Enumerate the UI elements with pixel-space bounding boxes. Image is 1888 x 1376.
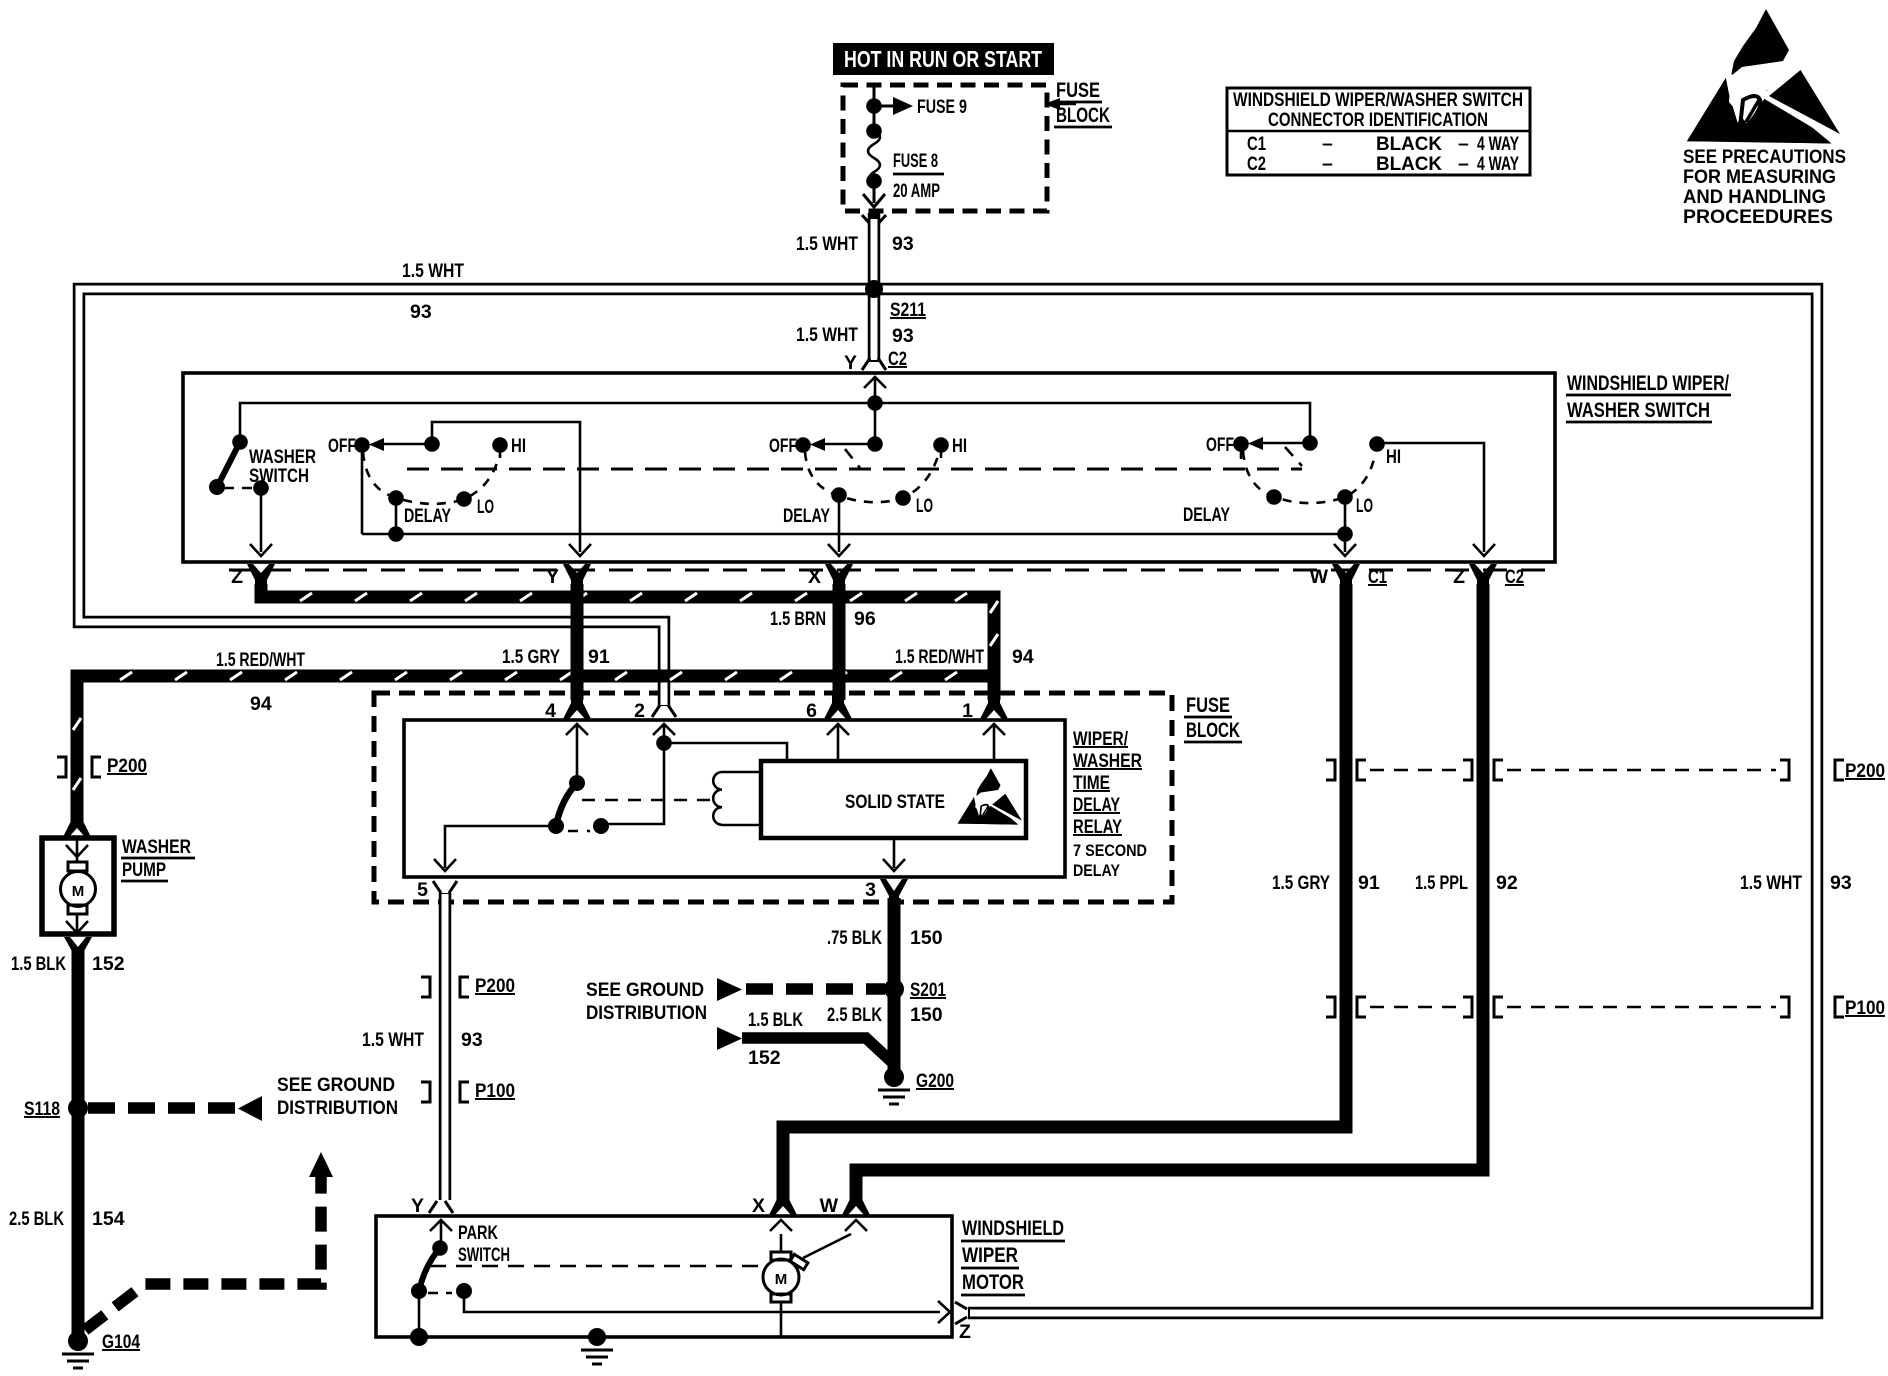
svg-text:W: W	[820, 1195, 839, 1217]
svg-text:154: 154	[92, 1208, 125, 1230]
arrow pin Y C2 into switch box	[864, 377, 886, 403]
svg-text:1.5 WHT: 1.5 WHT	[1740, 872, 1802, 894]
section B arm to OFF	[821, 443, 875, 446]
svg-text:LO: LO	[1356, 495, 1373, 517]
park switch coupling dashes	[430, 1265, 762, 1268]
section C HI contact to Z C2 output	[1369, 436, 1385, 452]
svg-text:WINDSHIELD: WINDSHIELD	[962, 1217, 1064, 1240]
section A HI contact	[492, 437, 508, 453]
svg-text:1.5 BLK: 1.5 BLK	[11, 953, 66, 975]
svg-text:DELAY: DELAY	[1073, 794, 1120, 816]
switch section A rotor and Y output	[432, 422, 591, 556]
wire 1.5 PPL 92 switch Z C2 to wiper motor W	[856, 584, 1483, 1200]
park switch	[411, 1222, 940, 1337]
svg-text:93: 93	[892, 325, 914, 347]
arrow relay pin 2	[653, 724, 675, 742]
relay switch arm	[556, 783, 577, 826]
white core pin 5 wire over fuse block dash	[442, 896, 449, 909]
svg-text:SWITCH: SWITCH	[458, 1244, 510, 1266]
section A OFF to common line	[361, 445, 364, 534]
terminal V relay pin 5 hollow	[433, 881, 457, 893]
svg-text:1: 1	[962, 700, 973, 722]
node below fuse element	[866, 173, 882, 189]
in-line connector P200 on washer pump wire	[57, 757, 101, 777]
junction node park switch ground	[410, 1328, 428, 1346]
junction node feed to middle section	[867, 395, 883, 411]
washer switch	[209, 434, 316, 556]
splice S201	[884, 979, 904, 999]
svg-text:HI: HI	[952, 435, 967, 457]
svg-text:W: W	[1310, 566, 1329, 588]
svg-text:OFF: OFF	[769, 435, 797, 457]
arrow relay pin 6	[827, 724, 849, 761]
wire dashed stub to ground distribution	[88, 1102, 236, 1114]
svg-text:93: 93	[410, 301, 432, 323]
svg-text:4: 4	[545, 700, 556, 722]
splice S211	[865, 280, 883, 298]
section B rotary arc	[805, 452, 938, 502]
terminal V pin Z switch	[247, 564, 275, 588]
svg-text:RELAY: RELAY	[1073, 816, 1122, 838]
section C OFF contact	[1233, 436, 1249, 452]
wire 1.5 RED-WHT 94 bus to washer pump hatched	[73, 672, 994, 822]
splice S118	[68, 1098, 88, 1118]
section B LO contact	[895, 490, 911, 506]
wire dashed elbow to wiper motor ground	[85, 1175, 321, 1330]
svg-text:152: 152	[92, 953, 125, 975]
svg-text:M: M	[72, 883, 85, 900]
wire 1.5 WHT 93 fuse to splice S211	[868, 213, 881, 291]
svg-text:1.5 BLK: 1.5 BLK	[748, 1009, 803, 1031]
wire stub bus to relay pin 1	[988, 670, 1001, 700]
svg-text:2: 2	[634, 700, 645, 722]
junction node on fuse feed	[866, 98, 882, 114]
wire .75 BLK 150 relay pin 3 to G200	[888, 898, 901, 1078]
svg-text:OFF: OFF	[328, 435, 356, 457]
svg-text:Z: Z	[231, 566, 243, 588]
svg-text:P200: P200	[1845, 760, 1885, 782]
svg-text:SOLID STATE: SOLID STATE	[845, 791, 945, 813]
wire into fuse	[873, 85, 876, 106]
svg-text:Y: Y	[546, 566, 559, 588]
wire 2.5 BLK 154 S118 to G104	[72, 1108, 85, 1335]
svg-text:1.5 RED/WHT: 1.5 RED/WHT	[895, 646, 984, 668]
wire 1.5 RED-WHT 94 switch Z to fuse block pin 1 hatched bus	[261, 584, 998, 676]
svg-text:M: M	[775, 1271, 788, 1288]
svg-text:1.5 WHT: 1.5 WHT	[796, 324, 858, 346]
see ground distribution arrow S201	[717, 978, 742, 1001]
fuse block dashed box	[843, 85, 1047, 211]
arrow to FUSE 9	[874, 105, 896, 108]
svg-text:WASHER: WASHER	[122, 836, 191, 858]
svg-text:1.5 WHT: 1.5 WHT	[362, 1029, 424, 1051]
svg-text:X: X	[752, 1195, 765, 1217]
see ground distribution arrow 152	[717, 1027, 742, 1050]
svg-text:WINDSHIELD WIPER/: WINDSHIELD WIPER/	[1567, 372, 1729, 395]
svg-text:91: 91	[1358, 872, 1380, 894]
svg-text:BLACK: BLACK	[1376, 153, 1442, 175]
svg-text:94: 94	[250, 693, 272, 715]
connector id table	[1227, 88, 1530, 175]
section A rotary arc	[363, 452, 499, 504]
section B DELAY contact to X output	[831, 487, 847, 503]
ground G104	[68, 1331, 88, 1351]
svg-text:C2: C2	[1247, 153, 1266, 175]
wire 1.5 WHT 93 relay pin 5 to motor pin Y	[439, 893, 452, 1200]
svg-text:FUSE 9: FUSE 9	[917, 96, 967, 118]
wire 1.5 BRN 96 switch X to relay pin 6	[833, 584, 846, 700]
arrow relay pin 4	[566, 724, 588, 783]
svg-text:93: 93	[461, 1029, 483, 1051]
solid state box	[761, 761, 1026, 838]
terminal V pin C2	[862, 358, 886, 370]
svg-text:DELAY: DELAY	[1183, 504, 1230, 526]
svg-text:X: X	[808, 566, 821, 588]
svg-text:C2: C2	[888, 348, 907, 370]
svg-text:DISTRIBUTION: DISTRIBUTION	[277, 1097, 398, 1119]
terminal V relay pin 4	[563, 694, 591, 719]
svg-text:SEE GROUND: SEE GROUND	[277, 1074, 395, 1096]
switch feed line from washer switch to third section	[240, 403, 1310, 443]
svg-text:2.5 BLK: 2.5 BLK	[9, 1208, 64, 1230]
svg-text:1.5 PPL: 1.5 PPL	[1415, 872, 1468, 894]
wiper motor M	[763, 1220, 867, 1337]
svg-text:150: 150	[910, 1004, 943, 1026]
svg-text:SEE PRECAUTIONS: SEE PRECAUTIONS	[1683, 146, 1846, 168]
wire 2.5 BLK 150 dashed to S201	[746, 983, 885, 995]
terminal V relay pin 2 hollow	[652, 705, 676, 717]
common line sections A to C	[362, 533, 1345, 536]
svg-text:92: 92	[1496, 872, 1518, 894]
svg-text:2.5 BLK: 2.5 BLK	[827, 1004, 882, 1026]
in-line connector P100 on pin 5 wire	[421, 1082, 469, 1102]
terminal V pin W switch	[1332, 564, 1360, 588]
terminal V pin X switch	[825, 564, 853, 588]
svg-text:C1: C1	[1368, 566, 1387, 588]
svg-text:S118: S118	[24, 1098, 60, 1120]
svg-text:Y: Y	[411, 1195, 424, 1217]
in-line connector P200 row right	[1326, 760, 1885, 782]
svg-text:BLOCK: BLOCK	[1056, 104, 1110, 127]
in-line connector P200 on pin 5 wire	[421, 977, 469, 997]
svg-text:150: 150	[910, 927, 943, 949]
svg-text:1.5 RED/WHT: 1.5 RED/WHT	[216, 649, 305, 671]
motor ground node	[588, 1328, 606, 1346]
relay pin 2 internal to solid state and contact	[656, 735, 672, 751]
svg-text:DISTRIBUTION: DISTRIBUTION	[586, 1002, 707, 1024]
svg-text:20 AMP: 20 AMP	[893, 180, 940, 202]
svg-text:AND HANDLING: AND HANDLING	[1683, 186, 1826, 208]
node above fuse element	[873, 106, 876, 131]
FUSE BLOCK label with arrow	[1044, 79, 1112, 127]
section A LO contact	[456, 491, 472, 507]
svg-text:DELAY: DELAY	[1073, 861, 1121, 880]
svg-text:93: 93	[892, 233, 914, 255]
section A DELAY contact	[388, 490, 404, 506]
terminal V motor pin Y hollow	[429, 1201, 453, 1213]
svg-text:PUMP: PUMP	[122, 859, 166, 881]
section A OFF contact	[354, 437, 370, 453]
terminal V relay pin 6	[824, 694, 852, 719]
arrow relay pin 5	[434, 848, 456, 871]
fuse element FUSE 8 20 AMP	[868, 131, 880, 181]
section B HI contact	[933, 437, 949, 453]
solid state esd symbol	[958, 768, 1023, 824]
svg-text:LO: LO	[477, 496, 494, 518]
svg-text:1.5 BRN: 1.5 BRN	[770, 608, 826, 630]
terminal V washer pump bottom	[64, 937, 92, 953]
relay switch contact from pin 4	[569, 775, 585, 791]
arrow down to fuse block edge	[873, 181, 876, 203]
section C coupling dash	[1285, 447, 1302, 466]
svg-text:P100: P100	[1845, 997, 1885, 1019]
svg-text:Z: Z	[1453, 566, 1465, 588]
svg-text:G200: G200	[916, 1070, 954, 1092]
svg-text:HOT IN RUN OR START: HOT IN RUN OR START	[844, 46, 1042, 72]
washer pump motor	[61, 838, 96, 934]
wiper washer time delay relay box	[404, 720, 1065, 877]
svg-text:TIME: TIME	[1073, 772, 1110, 794]
relay pin 3 output	[883, 838, 905, 871]
svg-text:–: –	[1322, 153, 1333, 175]
svg-text:7 SECOND: 7 SECOND	[1073, 841, 1147, 860]
svg-text:HI: HI	[1386, 446, 1401, 468]
mechanical coupling dashed line	[407, 468, 1302, 471]
svg-text:–: –	[1458, 153, 1469, 175]
relay arm to pin 5	[445, 826, 556, 848]
svg-text:91: 91	[588, 646, 610, 668]
svg-text:FUSE 8: FUSE 8	[893, 150, 938, 172]
ESD precaution text	[1683, 146, 1846, 228]
terminal V below fuse block	[862, 215, 886, 226]
section B OFF contact	[795, 437, 811, 453]
arrow motor pin Y	[430, 1220, 452, 1248]
svg-text:93: 93	[1830, 872, 1852, 894]
section C rotary arc	[1243, 451, 1375, 503]
svg-text:1.5 GRY: 1.5 GRY	[502, 646, 560, 668]
in-line connector P100 row right	[1326, 997, 1885, 1019]
svg-text:1.5 WHT: 1.5 WHT	[796, 233, 858, 255]
windshield wiper motor box	[376, 1216, 952, 1337]
svg-text:96: 96	[854, 608, 876, 630]
svg-text:BLACK: BLACK	[1376, 133, 1442, 155]
svg-text:WASHER SWITCH: WASHER SWITCH	[1567, 399, 1710, 422]
svg-text:C1: C1	[1247, 133, 1266, 155]
svg-text:3: 3	[865, 879, 876, 901]
svg-text:P100: P100	[475, 1080, 515, 1102]
svg-text:MOTOR: MOTOR	[962, 1271, 1024, 1294]
svg-text:94: 94	[1012, 646, 1034, 668]
svg-text:CONNECTOR IDENTIFICATION: CONNECTOR IDENTIFICATION	[1268, 109, 1488, 131]
svg-text:P200: P200	[107, 755, 147, 777]
svg-text:PROCEEDURES: PROCEEDURES	[1683, 206, 1833, 228]
svg-text:6: 6	[806, 700, 817, 722]
svg-text:4 WAY: 4 WAY	[1477, 133, 1519, 155]
section B coupling dash	[845, 449, 860, 468]
section C DELAY contact	[1266, 489, 1282, 505]
svg-text:FUSE: FUSE	[1056, 79, 1100, 102]
svg-text:Z: Z	[959, 1321, 971, 1343]
terminal V motor pin Z hollow	[955, 1302, 967, 1324]
wire 1.5 BLK 152 pump to S118	[72, 948, 85, 1108]
wire 1.5 WHT 93 left loop S211 to relay pin 2	[79, 289, 874, 706]
svg-text:5: 5	[417, 879, 428, 901]
svg-text:FUSE: FUSE	[1186, 694, 1230, 717]
svg-text:C2: C2	[1505, 566, 1524, 588]
svg-text:WIPER: WIPER	[962, 1244, 1018, 1267]
svg-text:–: –	[1458, 133, 1469, 155]
windshield wiper washer switch box	[183, 373, 1555, 562]
terminal V motor pin W	[842, 1192, 870, 1215]
svg-text:BLOCK: BLOCK	[1186, 719, 1240, 742]
svg-text:Y: Y	[844, 352, 857, 374]
section C arm to OFF	[1259, 442, 1310, 445]
terminal V pin Y switch	[563, 564, 591, 588]
svg-text:S201: S201	[910, 979, 946, 1001]
svg-text:152: 152	[748, 1047, 781, 1069]
wire 1.5 WHT 93 S211 to switch pin Y C2	[868, 289, 881, 362]
section A arm to OFF	[380, 443, 432, 446]
svg-text:WASHER: WASHER	[1073, 750, 1142, 772]
ESD handling precaution symbol	[1687, 9, 1842, 144]
terminal V relay pin 3	[880, 879, 908, 900]
relay coil	[713, 772, 761, 825]
svg-text:SEE GROUND: SEE GROUND	[586, 979, 704, 1001]
svg-text:DELAY: DELAY	[783, 505, 830, 527]
svg-text:HI: HI	[511, 435, 526, 457]
svg-text:FOR MEASURING: FOR MEASURING	[1683, 166, 1836, 188]
svg-text:G104: G104	[102, 1331, 140, 1353]
svg-text:P200: P200	[475, 975, 515, 997]
wire 1.5 GRY 91 switch W C1 to wiper motor X	[783, 584, 1346, 1200]
svg-text:LO: LO	[916, 495, 933, 517]
connector face dashed line below switch	[229, 569, 1552, 572]
svg-text:DELAY: DELAY	[404, 505, 451, 527]
wire 1.5 GRY 91 switch Y to relay pin 4	[571, 584, 584, 700]
terminal V pin Z C2 switch	[1469, 564, 1497, 588]
svg-text:OFF: OFF	[1206, 434, 1234, 456]
white core pin 2 wire over fuse block dash	[661, 686, 668, 700]
svg-text:S211: S211	[890, 299, 926, 321]
washer pump box	[42, 838, 114, 934]
svg-text:WINDSHIELD WIPER/WASHER SWITCH: WINDSHIELD WIPER/WASHER SWITCH	[1233, 89, 1523, 111]
fuse block dashed box lower	[374, 693, 1172, 902]
terminal V washer pump top	[63, 814, 91, 837]
wire 1.5 BLK 152 to G200	[742, 1038, 894, 1072]
svg-text:1.5 GRY: 1.5 GRY	[1272, 872, 1330, 894]
relay coil actuator dashes	[582, 799, 713, 802]
svg-text:PARK: PARK	[458, 1222, 498, 1244]
svg-text:–: –	[1322, 133, 1333, 155]
ground G200	[884, 1067, 904, 1087]
motor pin Z exit arrow	[938, 1301, 950, 1323]
svg-text:1.5 WHT: 1.5 WHT	[402, 260, 464, 282]
section C LO contact to W C1 output	[1337, 489, 1353, 505]
switch section B rotor	[874, 403, 877, 444]
wire 1.5 WHT 93 right loop S211 to wiper motor pin Z	[874, 289, 1817, 1313]
svg-text:WIPER/: WIPER/	[1073, 728, 1128, 750]
svg-text:SWITCH: SWITCH	[249, 465, 309, 487]
terminal V motor pin X	[769, 1192, 797, 1215]
arrow relay pin 1	[983, 724, 1005, 761]
junction node common line to W output	[1337, 526, 1353, 542]
svg-text:4 WAY: 4 WAY	[1477, 153, 1519, 175]
terminal V relay pin 1	[980, 694, 1008, 719]
switch section C rotor	[1302, 435, 1318, 451]
HOT IN RUN OR START label box	[833, 43, 1054, 75]
svg-text:.75 BLK: .75 BLK	[827, 927, 882, 949]
